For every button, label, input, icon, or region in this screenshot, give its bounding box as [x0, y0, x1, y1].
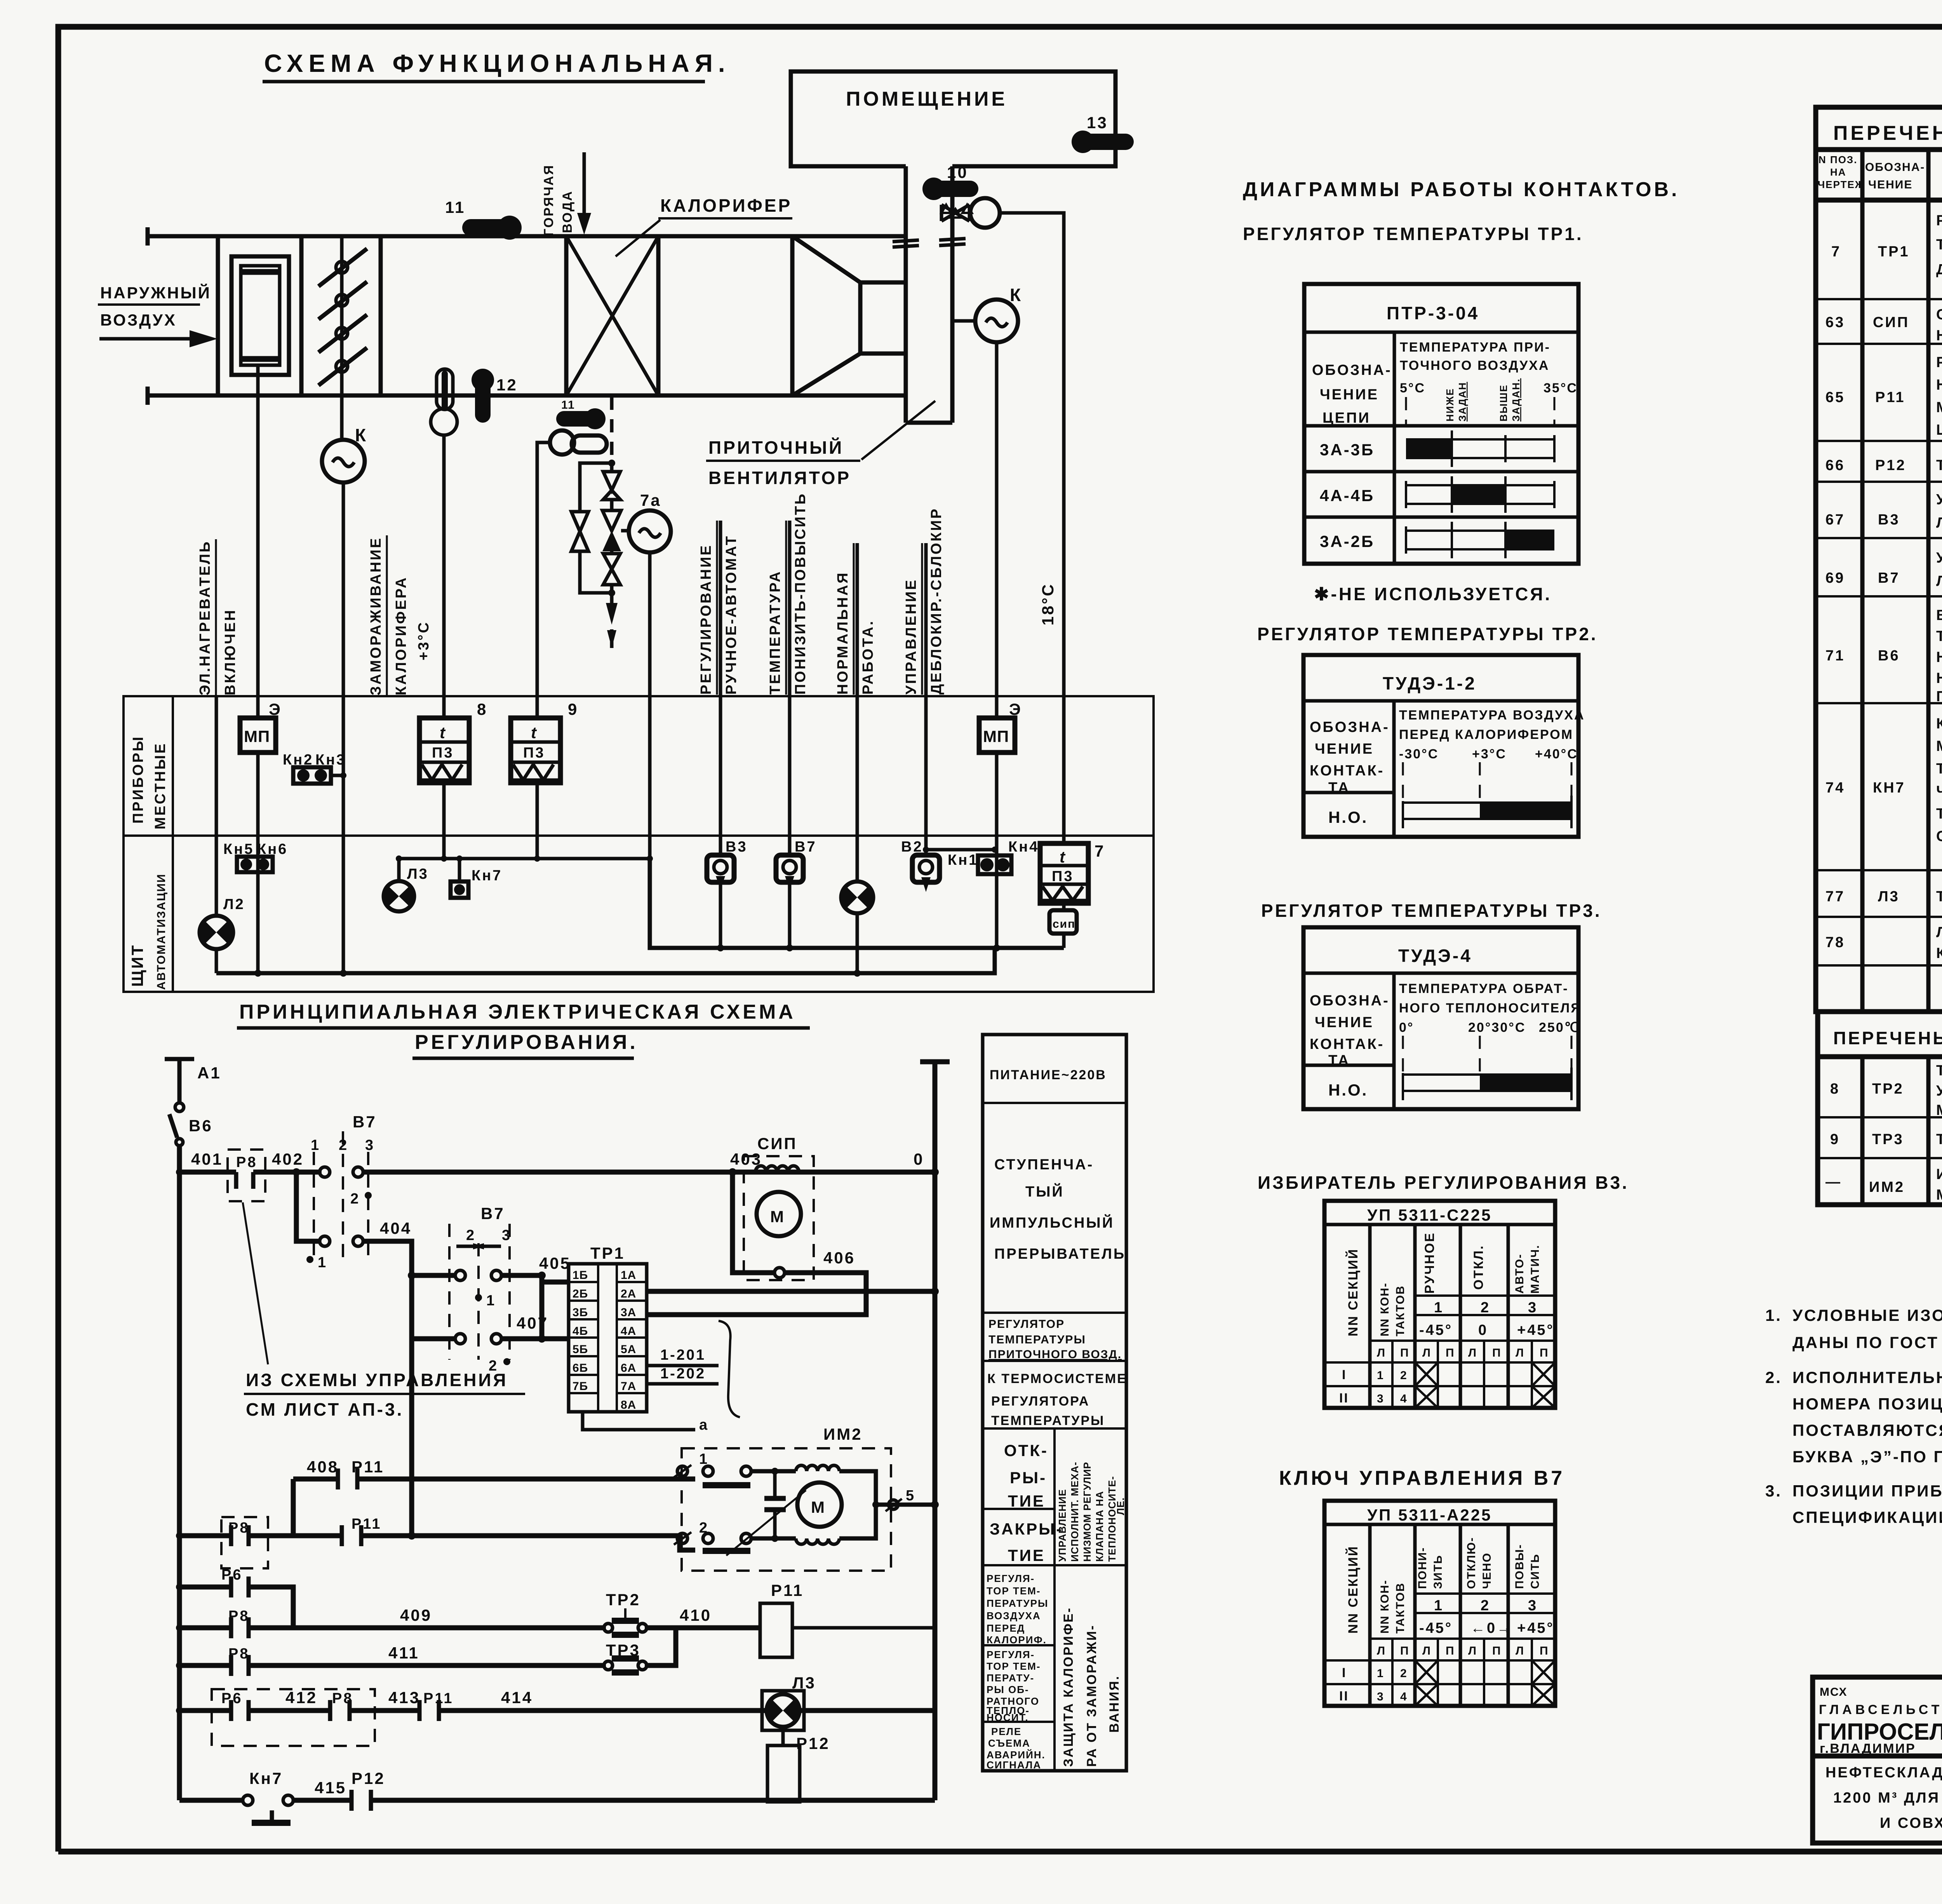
svg-text:8: 8	[1830, 1081, 1840, 1097]
svg-text:ПЕРАТУ-: ПЕРАТУ-	[987, 1672, 1034, 1684]
svg-text:ТЫЙ: ТЫЙ	[1025, 1183, 1064, 1200]
svg-text:П: П	[1446, 1347, 1455, 1359]
wire: to switch B3	[719, 521, 722, 855]
column row: регулятор температуры воздуха перед калориф	[987, 1573, 1048, 1646]
svg-text:СТУПЕНЧАТЫЙ ИМПУЛЬС-: СТУПЕНЧАТЫЙ ИМПУЛЬС-	[1936, 305, 1942, 323]
svg-text:Л: Л	[1468, 1347, 1477, 1359]
svg-text:405: 405	[539, 1254, 571, 1272]
svg-text:t: t	[1060, 848, 1067, 866]
note: не используется	[1314, 584, 1552, 604]
svg-text:3А: 3А	[621, 1306, 636, 1319]
svg-text:ИЗ СХЕМЫ УПРАВЛЕНИЯ: ИЗ СХЕМЫ УПРАВЛЕНИЯ	[246, 1370, 508, 1390]
svg-text:П3: П3	[432, 745, 454, 761]
row 67 В3	[1825, 490, 1942, 532]
svg-text:NN КОН-: NN КОН-	[1378, 1580, 1391, 1634]
svg-text:П: П	[1400, 1644, 1410, 1657]
svg-text:МЕХАНИЗМ.: МЕХАНИЗМ.	[1936, 1187, 1942, 1203]
svg-text:12: 12	[496, 376, 518, 394]
svg-text:КАЛОРИФЕР: КАЛОРИФЕР	[660, 195, 792, 216]
buttons Кн5 Кн6	[223, 841, 288, 872]
damper in supply duct with actuator	[941, 198, 1000, 228]
svg-text:В7: В7	[353, 1113, 377, 1131]
svg-text:Л: Л	[1377, 1644, 1386, 1657]
pipe: dashed from duct to valve node	[610, 397, 614, 458]
switch B7 contacts group 1	[306, 1113, 377, 1271]
svg-text:Р12: Р12	[352, 1769, 385, 1787]
svg-text:УП 5311-А225: УП 5311-А225	[1367, 1506, 1492, 1524]
svg-text:ПЕРАТУРЫ: ПЕРАТУРЫ	[987, 1597, 1048, 1609]
svg-text:ТО ЖЕ.: ТО ЖЕ.	[1936, 1131, 1942, 1148]
node: valve junction	[608, 460, 615, 467]
svg-text:ЧЕНИЕ: ЧЕНИЕ	[1868, 178, 1912, 191]
strip frame	[124, 696, 1154, 992]
svg-text:РЫ ОБ-: РЫ ОБ-	[987, 1684, 1029, 1695]
svg-text:Р8: Р8	[236, 1154, 257, 1171]
svg-text:ДИСТАНЦИОННЫЙ.: ДИСТАНЦИОННЫЙ.	[1936, 260, 1942, 278]
svg-text:С НАДПИСЬЮ „СТОП”: С НАДПИСЬЮ „СТОП”	[1936, 828, 1942, 845]
svg-text:ЧЕНИЕ: ЧЕНИЕ	[1315, 1014, 1374, 1031]
svg-text:ТАКТОВ: ТАКТОВ	[1394, 1582, 1407, 1634]
svg-text:Л: Л	[1468, 1644, 1477, 1657]
svg-text:УНИВЕРСАЛЬНЫЙ ПЕРЕК-: УНИВЕРСАЛЬНЫЙ ПЕРЕК-	[1936, 490, 1942, 508]
svg-text:ПОВЫ-: ПОВЫ-	[1513, 1544, 1526, 1589]
wire: to lamp L4	[856, 543, 859, 881]
svg-text:4: 4	[1400, 1392, 1408, 1405]
svg-text:КОНТАК-: КОНТАК-	[1310, 763, 1384, 779]
svg-text:П: П	[1400, 1347, 1410, 1359]
svg-text:РУЧНОЕ-АВТОМАТ: РУЧНОЕ-АВТОМАТ	[723, 535, 740, 695]
svg-text:1-201: 1-201	[660, 1347, 706, 1363]
svg-text:ЗАМОРАЖИВАНИЕ: ЗАМОРАЖИВАНИЕ	[368, 537, 384, 695]
terminal A1	[165, 1059, 221, 1111]
svg-text:ПРЕРЫВАТЕЛЬ: ПРЕРЫВАТЕЛЬ	[994, 1246, 1126, 1262]
svg-text:I: I	[1342, 1665, 1347, 1680]
svg-text:АВТО-: АВТО-	[1513, 1254, 1526, 1294]
svg-text:ПТР-3-04: ПТР-3-04	[1387, 303, 1479, 323]
valve V1	[603, 472, 620, 500]
svg-text:4А-4Б: 4А-4Б	[1320, 486, 1375, 505]
valve V3 (bypass)	[571, 512, 588, 551]
svg-text:3А-3Б: 3А-3Б	[1320, 441, 1375, 459]
svg-text:410: 410	[680, 1606, 712, 1624]
svg-text:ИСПОЛНИТЕЛЬНЫЙ МЕХАНИЗМ И АП: ИСПОЛНИТЕЛЬНЫЙ МЕХАНИЗМ И АППАРАТУРА, У …	[1792, 1368, 1942, 1387]
svg-text:КАЯ, ЦОКОЛЬ 2Ш-15.: КАЯ, ЦОКОЛЬ 2Ш-15.	[1936, 945, 1942, 962]
svg-text:ГЛАВСЕЛЬСТРОЙПРОЕКТ: ГЛАВСЕЛЬСТРОЙПРОЕКТ	[1819, 1702, 1942, 1717]
air damper box	[231, 256, 289, 375]
node 404/405	[408, 1272, 416, 1279]
svg-text:65: 65	[1825, 389, 1845, 406]
svg-text:Кн7: Кн7	[249, 1769, 283, 1787]
svg-text:ЗАЩИТА КАЛОРИФЕ-: ЗАЩИТА КАЛОРИФЕ-	[1061, 1607, 1076, 1767]
bus 2	[216, 948, 995, 977]
svg-text:2: 2	[1481, 1300, 1490, 1316]
pipe: bypass branch	[580, 463, 612, 593]
svg-text:ИСПОЛНИТ. МЕХА-: ИСПОЛНИТ. МЕХА-	[1069, 1462, 1081, 1562]
rung 408	[293, 1458, 695, 1536]
svg-text:Л: Л	[1516, 1347, 1524, 1359]
wire to lower contact	[412, 1275, 455, 1339]
pipe: main valve run	[610, 463, 614, 606]
svg-text:408: 408	[307, 1458, 339, 1476]
svg-text:РЕГУЛЯТОР ТЕМПЕРАТУРЫ ТР2.: РЕГУЛЯТОР ТЕМПЕРАТУРЫ ТР2.	[1257, 624, 1598, 644]
svg-text:РА ОТ ЗАМОРАЖИ-: РА ОТ ЗАМОРАЖИ-	[1084, 1624, 1099, 1767]
svg-text:NN КОН-: NN КОН-	[1378, 1282, 1391, 1336]
svg-text:В7: В7	[481, 1204, 505, 1223]
svg-text:ОБОЗНА-: ОБОЗНА-	[1865, 161, 1925, 174]
svg-text:ПРИТОЧНЫЙ: ПРИТОЧНЫЙ	[708, 437, 844, 458]
svg-text:ЗАДАН.: ЗАДАН.	[1510, 378, 1522, 422]
buttons Кн2 Кн3	[283, 752, 346, 784]
column row: закрытие	[990, 1520, 1063, 1564]
svg-text:КАЛОРИФЕРА: КАЛОРИФЕРА	[393, 576, 409, 695]
svg-text:78: 78	[1825, 934, 1845, 951]
svg-text:РЕГУЛЯТОР ТЕМПЕРА-: РЕГУЛЯТОР ТЕМПЕРА-	[1936, 213, 1942, 229]
svg-text:М: М	[811, 1498, 826, 1516]
svg-text:К: К	[355, 425, 368, 445]
svg-text:ЧЕНИЕ: ЧЕНИЕ	[1320, 387, 1379, 403]
svg-text:Кн7: Кн7	[472, 868, 502, 884]
left rail	[177, 1145, 182, 1800]
svg-text:1.: 1.	[1765, 1306, 1782, 1324]
svg-text:ИЗБИРАТЕЛЬ РЕГУЛИРОВАНИЯ В3.: ИЗБИРАТЕЛЬ РЕГУЛИРОВАНИЯ В3.	[1258, 1172, 1629, 1193]
svg-text:415: 415	[315, 1779, 346, 1797]
svg-text:ЦЕПИ: ЦЕПИ	[1323, 410, 1371, 426]
relay coil Р11	[760, 1581, 935, 1657]
svg-text:НА: НА	[1830, 166, 1846, 178]
svg-text:П: П	[1540, 1644, 1549, 1657]
svg-text:ПОНИ-: ПОНИ-	[1416, 1547, 1429, 1589]
wire: motor K down to panel bus	[342, 483, 345, 973]
label: Приточный вентилятор with leader	[706, 401, 935, 488]
actuator ИМ2	[674, 1425, 891, 1571]
svg-text:414: 414	[501, 1688, 533, 1707]
svg-text:Р11: Р11	[1875, 389, 1905, 406]
instrument 7 (t/П3)	[1040, 842, 1105, 903]
svg-text:69: 69	[1825, 570, 1845, 586]
svg-text:ОТК-: ОТК-	[1004, 1441, 1048, 1460]
fan casing	[658, 236, 906, 395]
svg-text:ГОРЯЧАЯ: ГОРЯЧАЯ	[541, 164, 556, 236]
svg-text:Кн1: Кн1	[948, 852, 978, 868]
svg-text:ТИЧЕСКИЙ КРЕПЛЕНИЕ: ТИЧЕСКИЙ КРЕПЛЕНИЕ	[1936, 627, 1942, 645]
svg-text:ТЕМПЕРАТУРА ВОЗДУХА: ТЕМПЕРАТУРА ВОЗДУХА	[1399, 708, 1585, 723]
svg-text:Л3: Л3	[1878, 888, 1900, 905]
svg-text:ЩЕННОЕ.: ЩЕННОЕ.	[1936, 422, 1942, 438]
wire: t8 down / t9 down / Л3 / Кн7 stubs	[399, 783, 537, 881]
svg-text:НЕФТЕСКЛАД ЕМКОСТЬЮ: НЕФТЕСКЛАД ЕМКОСТЬЮ	[1825, 1765, 1942, 1781]
svg-text:ЧЕСКИЙ КРАСНОГО ЦВЕ-: ЧЕСКИЙ КРАСНОГО ЦВЕ-	[1936, 782, 1942, 800]
lamp Л3 (ladder)	[762, 1674, 816, 1730]
org cell	[1817, 1686, 1942, 1756]
object cell	[1825, 1765, 1942, 1831]
svg-text:НОРМАЛЬНАЯ: НОРМАЛЬНАЯ	[835, 571, 851, 695]
svg-text:ПЕРЕЧЕНЬ АППАРАТУРЫ И ПРИБОР: ПЕРЕЧЕНЬ АППАРАТУРЫ И ПРИБОРОВ,УСТАНОВЛЕ…	[1833, 1028, 1942, 1048]
svg-text:ОТКЛ.: ОТКЛ.	[1471, 1245, 1486, 1290]
svg-text:1-202: 1-202	[660, 1366, 706, 1382]
svg-text:ПЕРЕЧЕНЬ АППАРАТУРЫ, УСТАНОВ: ПЕРЕЧЕНЬ АППАРАТУРЫ, УСТАНОВЛЕННОЙ НА ЩИ…	[1833, 122, 1942, 145]
svg-text:2Б: 2Б	[573, 1287, 588, 1300]
svg-text:3: 3	[365, 1137, 375, 1153]
svg-text:66: 66	[1825, 457, 1845, 474]
svg-text:ТУДЭ-4: ТУДЭ-4	[1398, 946, 1472, 966]
svg-text:РЕГУЛЯ-: РЕГУЛЯ-	[987, 1573, 1035, 1584]
svg-text:ПОМЕЩЕНИЕ: ПОМЕЩЕНИЕ	[846, 88, 1008, 110]
valve V4	[603, 554, 620, 585]
svg-text:t: t	[440, 723, 447, 742]
svg-text:УНИВЕРСАЛЬНЫЙ ПЕРЕК-: УНИВЕРСАЛЬНЫЙ ПЕРЕК-	[1936, 549, 1942, 566]
svg-text:0: 0	[914, 1150, 924, 1168]
rung 401-403	[176, 1150, 939, 1176]
svg-text:7Б: 7Б	[573, 1380, 588, 1393]
svg-text:Л2: Л2	[223, 896, 245, 913]
svg-text:РУЧНОЕ: РУЧНОЕ	[1422, 1232, 1437, 1294]
svg-text:11: 11	[445, 198, 465, 216]
wire: damper to MP box	[256, 365, 260, 718]
svg-text:НИМ ПРИСОЕДИНЕНИЕМ: НИМ ПРИСОЕДИНЕНИЕМ	[1936, 670, 1942, 686]
button Кн7	[451, 868, 502, 898]
svg-text:0°: 0°	[1399, 1020, 1414, 1035]
svg-text:НИЗМОМ РЕГУЛИР: НИЗМОМ РЕГУЛИР	[1081, 1462, 1093, 1562]
svg-text:КЛАПАНА НА: КЛАПАНА НА	[1094, 1491, 1105, 1562]
bus 1	[650, 859, 1064, 951]
svg-text:КАЛОРИФ.: КАЛОРИФ.	[987, 1634, 1047, 1646]
svg-text:ТОЛКАТЕЛЬ ЦИЛИНДРИ-: ТОЛКАТЕЛЬ ЦИЛИНДРИ-	[1936, 761, 1942, 777]
svg-text:9: 9	[568, 700, 578, 718]
svg-text:СИП: СИП	[1873, 314, 1909, 331]
device MP (right)	[979, 700, 1022, 753]
svg-text:2: 2	[1400, 1667, 1408, 1680]
second table frame	[1818, 1057, 1942, 1205]
row 74 Кн7	[1825, 716, 1942, 845]
lamp Л4 (normal work)	[841, 881, 873, 973]
room box Помещение	[791, 71, 1115, 166]
svg-text:СИГНАЛА: СИГНАЛА	[987, 1759, 1041, 1771]
wire 5 to right rail	[872, 1488, 939, 1511]
svg-text:+3°С: +3°С	[416, 621, 432, 660]
svg-text:СИП: СИП	[757, 1134, 797, 1153]
svg-text:РЕГУЛИРОВАНИЯ.: РЕГУЛИРОВАНИЯ.	[415, 1031, 638, 1054]
svg-text:ИМ2: ИМ2	[823, 1425, 863, 1443]
svg-text:И СОВХОЗОВ.: И СОВХОЗОВ.	[1880, 1815, 1942, 1831]
svg-text:ТАБЛО СВЕТОВОЕ: ТАБЛО СВЕТОВОЕ	[1936, 888, 1942, 905]
terminal block TP1	[569, 1244, 647, 1412]
svg-text:ПЕРЕД: ПЕРЕД	[987, 1622, 1025, 1634]
svg-text:ТЕРМОРЕГУЛИРУЮЩЕЕ: ТЕРМОРЕГУЛИРУЮЩЕЕ	[1936, 1063, 1942, 1079]
svg-text:7: 7	[1831, 244, 1841, 260]
svg-text:АВТОМАТИЗАЦИИ: АВТОМАТИЗАЦИИ	[155, 873, 168, 990]
lamp Л3	[384, 866, 429, 911]
svg-text:5: 5	[906, 1488, 915, 1504]
svg-text:ИМ2: ИМ2	[1869, 1179, 1905, 1195]
svg-text:КН7: КН7	[1873, 780, 1905, 796]
svg-text:411: 411	[388, 1644, 419, 1662]
svg-text:ТО ЖЕ, 2ЛХ.709.157.110: ТО ЖЕ, 2ЛХ.709.157.110	[1936, 457, 1942, 474]
wire: to switch B7	[788, 521, 792, 855]
svg-text:СТУПЕНЧА-: СТУПЕНЧА-	[994, 1157, 1094, 1173]
svg-text:Р11: Р11	[771, 1581, 804, 1599]
sensor 11 (hot water supply, above duct)	[445, 198, 522, 240]
svg-text:Р12: Р12	[1875, 457, 1906, 474]
wire: duct bottom line	[148, 394, 906, 398]
svg-text:ТР3: ТР3	[1872, 1131, 1904, 1148]
svg-text:УПРАВЛЕНИЕ: УПРАВЛЕНИЕ	[1056, 1489, 1068, 1562]
row 9 ТР3	[1830, 1131, 1942, 1148]
wire: fan motor down to MP (right)	[995, 342, 999, 718]
rotated label: Регулирование ручное-автомат	[698, 521, 740, 695]
svg-text:ТР1: ТР1	[590, 1244, 625, 1262]
wire: collector line A (t8 t9 Л3 Кн7 to 7a line)	[396, 855, 653, 862]
svg-text:404: 404	[380, 1219, 412, 1237]
svg-text:РЕГУЛЯ-: РЕГУЛЯ-	[987, 1649, 1035, 1660]
table УП 5311-А225	[1324, 1501, 1555, 1706]
svg-text:+45°: +45°	[1517, 1620, 1554, 1636]
sensor TP3 (circle + capsule)	[550, 430, 607, 455]
damper actuator motor K (left)	[322, 425, 368, 483]
wire: link B2 to Kn line	[926, 848, 995, 852]
svg-text:ДАНЫ ПО ГОСТ 3925-59.: ДАНЫ ПО ГОСТ 3925-59.	[1792, 1333, 1942, 1352]
svg-text:35°С: 35°С	[1544, 381, 1578, 395]
svg-text:II: II	[1339, 1391, 1349, 1406]
svg-text:4: 4	[1400, 1690, 1408, 1703]
svg-text:ЧЕНО: ЧЕНО	[1481, 1552, 1493, 1589]
svg-text:1: 1	[1434, 1300, 1444, 1316]
svg-text:407: 407	[517, 1314, 548, 1332]
svg-text:П3: П3	[1052, 868, 1074, 885]
svg-text:ВЫКЛЮЧАТЕЛЬ АВТОМА-: ВЫКЛЮЧАТЕЛЬ АВТОМА-	[1936, 607, 1942, 624]
svg-text:ЭЛ.НАГРЕВАТЕЛЬ: ЭЛ.НАГРЕВАТЕЛЬ	[197, 540, 213, 695]
svg-text:9: 9	[1830, 1131, 1840, 1148]
svg-text:Кн4: Кн4	[1008, 839, 1039, 855]
svg-text:М: М	[770, 1207, 785, 1226]
table ТУДЭ-1-2	[1303, 655, 1585, 837]
svg-text:3Б: 3Б	[573, 1306, 588, 1319]
switch B2	[901, 839, 940, 892]
row 65 Р11	[1825, 354, 1942, 438]
label: Наружный воздух	[98, 283, 211, 329]
svg-text:ПЕРЕД КАЛОРИФЕРОМ: ПЕРЕД КАЛОРИФЕРОМ	[1399, 727, 1573, 742]
svg-text:НА ПЕРФОУГОЛКЕ С ПЕРЕД-: НА ПЕРФОУГОЛКЕ С ПЕРЕД-	[1936, 649, 1942, 665]
svg-text:В7: В7	[1878, 570, 1900, 586]
label: Горячая вода (vertical) with arrow	[541, 152, 591, 236]
svg-text:63: 63	[1825, 314, 1845, 331]
device СИП (interrupter)	[729, 1134, 814, 1280]
svg-text:1: 1	[318, 1254, 327, 1271]
header row	[1818, 154, 1942, 194]
duct end ticks	[146, 227, 150, 405]
svg-text:6А: 6А	[621, 1362, 636, 1374]
column row: регулятор температуры обратного теплоносит	[987, 1649, 1041, 1723]
filter section walls	[218, 236, 381, 395]
svg-text:ПОНИЗИТЬ-ПОВЫСИТЬ: ПОНИЗИТЬ-ПОВЫСИТЬ	[792, 492, 809, 695]
svg-text:2: 2	[350, 1191, 360, 1207]
svg-text:Р11: Р11	[352, 1516, 382, 1532]
svg-text:ТЕМПЕРАТУРЫ: ТЕМПЕРАТУРЫ	[988, 1333, 1086, 1346]
sensor 11 (hot water return, below heater)	[561, 399, 606, 429]
wire: MP right through buttons to bus	[995, 753, 999, 948]
sensor 13 (room)	[1072, 113, 1126, 153]
wire: vertical link 405-rung	[409, 1339, 414, 1536]
svg-text:ВЕНТИЛЯТОР: ВЕНТИЛЯТОР	[708, 468, 851, 488]
rung P6 (y4085)	[176, 1567, 293, 1628]
strip row labels	[128, 735, 169, 990]
svg-text:СПЕЦИФИКАЦИИ.: СПЕЦИФИКАЦИИ.	[1792, 1508, 1942, 1526]
svg-text:ТУРЫ,ТРЕХПОЗИЦИОННЫЙ: ТУРЫ,ТРЕХПОЗИЦИОННЫЙ	[1936, 235, 1942, 253]
wire: TP2 sensor down to box 8	[442, 435, 446, 718]
wire 407	[501, 1275, 569, 1343]
svg-text:ТОР ТЕМ-: ТОР ТЕМ-	[987, 1660, 1041, 1672]
table frame	[1816, 107, 1942, 1012]
svg-text:412: 412	[285, 1688, 317, 1707]
svg-text:ЧЕРТЕЖ: ЧЕРТЕЖ	[1818, 179, 1865, 190]
row 66 Р12	[1825, 448, 1942, 481]
svg-text:ОБОЗНА-: ОБОЗНА-	[1312, 362, 1392, 378]
svg-text:8А: 8А	[621, 1399, 636, 1411]
svg-text:УСТРОЙСТВО, ДИЛАТО-: УСТРОЙСТВО, ДИЛАТО-	[1936, 1082, 1942, 1099]
svg-text:←0→: ←0→	[1470, 1620, 1513, 1636]
svg-text:ТЕМПЕРАТУРА: ТЕМПЕРАТУРА	[767, 570, 783, 695]
svg-text:-30°С: -30°С	[1399, 747, 1439, 761]
wire: damper actuator to t7 line	[1000, 213, 1064, 843]
svg-text:ЗАКРЫ-: ЗАКРЫ-	[990, 1520, 1063, 1538]
svg-text:ТР1: ТР1	[1878, 244, 1910, 260]
svg-text:ОТКЛЮ-: ОТКЛЮ-	[1465, 1537, 1478, 1589]
svg-text:НАРУЖНЫЙ: НАРУЖНЫЙ	[100, 283, 211, 302]
rung 412 413 414 Л3	[176, 1688, 935, 1746]
svg-text:УПРАВЛЕНИЕ: УПРАВЛЕНИЕ	[903, 578, 919, 695]
arrow: outdoor air flow	[99, 330, 218, 347]
svg-text:П: П	[1540, 1347, 1549, 1359]
svg-text:1А: 1А	[621, 1269, 636, 1282]
title: Схема функциональная	[263, 49, 731, 82]
svg-text:-45°: -45°	[1419, 1620, 1453, 1636]
node: bypass rejoin	[608, 589, 615, 596]
svg-text:Л: Л	[1422, 1644, 1431, 1657]
svg-text:406: 406	[823, 1249, 855, 1267]
svg-text:ТЕМПЕРАТУРЫ: ТЕМПЕРАТУРЫ	[991, 1413, 1105, 1428]
wire: 7a down to bus	[648, 552, 652, 948]
svg-text:МП: МП	[983, 727, 1009, 746]
row 63 СИП	[1825, 305, 1942, 344]
svg-text:71: 71	[1825, 648, 1845, 664]
column row: ступенчатый импульсный прерыватель	[990, 1157, 1126, 1262]
svg-text:П: П	[1492, 1347, 1502, 1359]
svg-text:5°С: 5°С	[1400, 381, 1425, 395]
column row: к термосистеме регулятора температуры	[987, 1371, 1127, 1428]
svg-text:ПРИТОЧНОГО ВОЗД.: ПРИТОЧНОГО ВОЗД.	[988, 1348, 1122, 1361]
svg-text:В6: В6	[189, 1117, 213, 1135]
svg-text:1Б: 1Б	[573, 1269, 588, 1282]
svg-text:РЕГУЛЯТОР ТЕМПЕРАТУРЫ ТР3.: РЕГУЛЯТОР ТЕМПЕРАТУРЫ ТР3.	[1261, 901, 1602, 921]
svg-text:НОГО ТЕПЛОНОСИТЕЛЯ: НОГО ТЕПЛОНОСИТЕЛЯ	[1399, 1001, 1582, 1016]
svg-text:18°С: 18°С	[1039, 583, 1057, 625]
svg-text:ПОЗИЦИИ ПРИБОРОВ И ЭЛЕКТРОАП: ПОЗИЦИИ ПРИБОРОВ И ЭЛЕКТРОАППАРАТУРЫ УКА…	[1792, 1481, 1942, 1500]
svg-text:ЩИТ: ЩИТ	[128, 944, 146, 987]
row 69 В7	[1825, 549, 1942, 589]
svg-text:3: 3	[1528, 1597, 1538, 1614]
svg-text:ДЕБЛОКИР.-СБЛОКИР: ДЕБЛОКИР.-СБЛОКИР	[928, 507, 945, 695]
svg-text:РЕГУЛЯТОР ТЕМПЕРАТУРЫ ТР1.: РЕГУЛЯТОР ТЕМПЕРАТУРЫ ТР1.	[1243, 224, 1584, 244]
wires 1-201 1-202 with brace	[583, 1321, 740, 1433]
wire 404 branch	[296, 1172, 412, 1275]
svg-text:+45°: +45°	[1517, 1322, 1554, 1338]
svg-text:77: 77	[1825, 888, 1845, 905]
svg-text:ПРОВОДОВ ТУ16.522,037-09.: ПРОВОДОВ ТУ16.522,037-09.	[1936, 688, 1942, 705]
svg-text:ПРИБОРЫ: ПРИБОРЫ	[130, 735, 146, 824]
svg-text:401: 401	[191, 1150, 223, 1168]
row1 band	[1406, 435, 1554, 462]
svg-text:НИЖЕ: НИЖЕ	[1444, 388, 1456, 422]
svg-text:413: 413	[388, 1688, 420, 1707]
